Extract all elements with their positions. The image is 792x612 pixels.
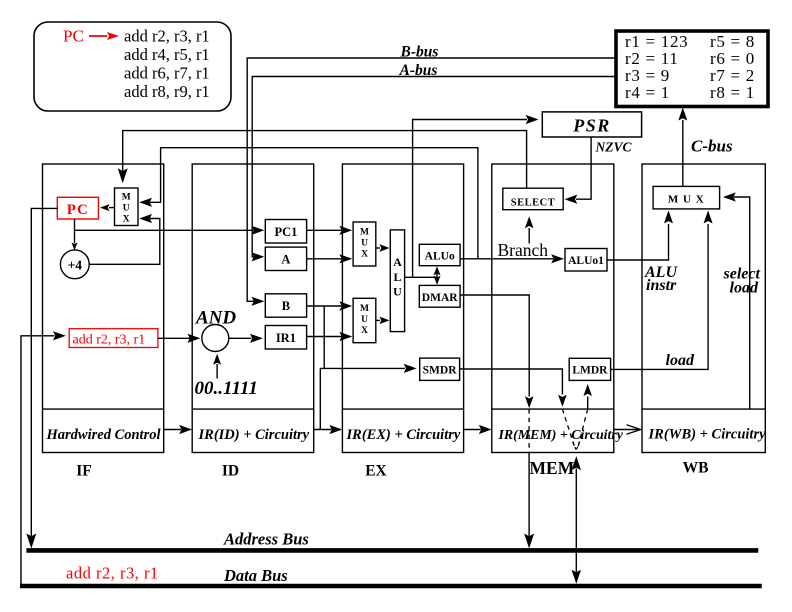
svg-text:SELECT: SELECT [511,197,555,208]
arrow IR(MEM) to IR(WB) (open head) [614,429,640,431]
wire SELECT output to IF MUX (next PC select) [123,131,527,189]
arrow mask into AND [216,364,218,379]
red arrow from PC to first instruction [89,35,107,37]
wire A-bus from register file to A register [252,77,616,257]
wire +4 output loop back to IF MUX [89,219,160,265]
svg-text:add r2, r3, r1: add r2, r3, r1 [66,564,159,583]
svg-text:U: U [361,239,368,249]
svg-text:WB: WB [683,460,709,477]
wire SMDR down into IR(MEM) [460,369,563,395]
wire ALU output [405,276,437,278]
arrow branch signal up into SELECT [528,228,530,244]
svg-text:add r2, r3, r1: add r2, r3, r1 [73,333,146,348]
svg-text:U: U [123,204,130,214]
svg-text:PC1: PC1 [274,225,297,239]
WB stage box [642,164,765,453]
svg-text:ID: ID [222,463,239,480]
svg-text:A: A [281,252,290,266]
svg-text:M U X: M U X [668,193,705,205]
svg-text:A: A [393,255,402,269]
wire junction down to IR(ID)-IR(EX) arrow [319,368,321,429]
DMAR box [419,285,460,307]
dashed arrowhead at data path join [573,442,580,451]
dashed wire LMDR path from data bus [578,409,587,446]
svg-text:M: M [360,304,369,314]
wire MEM to data bus (bidirectional) [575,469,577,573]
wire B value tap down to SMDR [320,306,405,368]
svg-text:L: L [393,270,401,284]
svg-text:M: M [122,193,131,203]
svg-text:Hardwired Control: Hardwired Control [46,427,161,443]
svg-text:X: X [361,326,368,336]
dashed wire SMDR path to data bus [562,409,574,446]
IF stage box [43,164,164,453]
svg-text:IR(MEM) + Circuitry: IR(MEM) + Circuitry [498,428,624,443]
PSR box [542,112,641,137]
wire PC output to address bus (left route) [31,208,57,536]
arrow MUX1 to ALU [376,247,380,249]
program listing box [34,22,231,111]
svg-text:MEM: MEM [530,458,575,478]
SELECT box [503,188,563,210]
svg-text:DMAR: DMAR [422,292,458,304]
svg-text:PC: PC [67,202,89,218]
PC register box (red) [57,197,98,219]
svg-text:00..1111: 00..1111 [195,378,258,399]
IF MUX box [115,188,139,226]
EX stage box [342,164,463,453]
ALUo output latch box [419,244,460,265]
svg-text:PSR: PSR [572,116,611,136]
svg-text:ALUo1: ALUo1 [568,255,604,267]
wire ALUo1 to WB MUX [607,224,669,260]
svg-text:add r2, r3, r1: add r2, r3, r1 [124,27,210,46]
wire select load control into WB MUX [734,197,750,409]
wire B-bus from register file to B register [247,58,616,301]
arrow IR(ID) to IR(EX) [314,429,332,431]
double arrow ALU result to ALUo and DMAR [436,270,438,281]
arrow MUX2 to ALU [376,319,380,321]
arrow IR(EX) to IR(MEM) [464,429,481,431]
svg-text:Data Bus: Data Bus [223,566,288,585]
svg-text:U: U [393,285,402,299]
EX MUX1 box [353,222,376,266]
wire PC to +4 adder [74,219,76,243]
svg-text:B: B [282,299,290,313]
+4 incrementer circle [60,250,89,279]
svg-text:load: load [730,280,759,297]
svg-text:add r6, r7, r1: add r6, r7, r1 [124,64,210,83]
ALUo1 box [565,249,607,272]
svg-text:IR1: IR1 [276,331,296,345]
wire MEM to address bus [528,453,530,537]
wire ALUo to ALUo1 [460,258,553,260]
AND gate circle [202,325,229,352]
LMDR box [569,358,610,380]
dashed wire through IR(MEM) compartment to address bus [528,409,530,452]
register file box [616,31,768,107]
svg-text:load: load [666,352,695,369]
A register box [265,247,306,270]
svg-text:IF: IF [76,463,92,480]
arrow instruction to AND [158,337,190,339]
wire NZVC flags from PSR to SELECT [576,137,591,199]
svg-text:EX: EX [365,463,387,480]
arrow from IR(MEM) up into LMDR [587,397,589,410]
svg-text:ALUo: ALUo [425,250,455,262]
svg-text:X: X [123,215,130,225]
wire PC to PC1 pipeline register [75,229,254,231]
Address Bus line [26,548,758,553]
PC1 register box [265,220,306,244]
svg-text:X: X [361,250,368,260]
svg-text:PC: PC [63,27,84,46]
svg-text:instr: instr [646,277,677,294]
svg-text:+4: +4 [68,258,83,273]
wire PC1 to EX MUX1 [307,229,342,231]
svg-text:r4 = 1: r4 = 1 [625,83,670,102]
IR1 register box [265,326,306,350]
svg-text:IR(ID) + Circuitry: IR(ID) + Circuitry [198,427,310,443]
arrow AND to IR1 [229,337,252,339]
svg-text:r8 = 1: r8 = 1 [710,83,755,102]
wire A to EX MUX1 [307,258,342,260]
svg-text:IR(WB) + Circuitry: IR(WB) + Circuitry [648,427,767,443]
svg-text:U: U [361,315,368,325]
svg-text:Address Bus: Address Bus [223,530,309,549]
wire ALUo branch target feedback to IF MUX [150,148,478,259]
MEM stage box [492,164,614,453]
wire ALU output to PSR [413,120,527,278]
EX MUX2 box [353,298,376,342]
WB MUX box [653,186,720,209]
svg-text:Branch: Branch [498,240,549,260]
svg-text:C-bus: C-bus [691,137,733,156]
Data Bus line [20,584,762,589]
svg-text:SMDR: SMDR [423,365,458,377]
B register box [265,294,306,317]
wire IR1 to EX MUX2 [307,336,342,338]
arrow Hardwired Control to IR(ID) [164,429,181,431]
wire LMDR to WB MUX [611,224,709,369]
svg-text:M: M [360,228,369,238]
wire C-bus from WB MUX up to register file [682,120,684,186]
wire DMAR down into IR(MEM) [460,295,529,397]
svg-text:LMDR: LMDR [572,365,608,377]
arrow IF MUX to PC [109,207,115,209]
svg-text:NZVC: NZVC [595,140,633,155]
fetched instruction box (red) [69,329,158,348]
svg-text:add r8, r9, r1: add r8, r9, r1 [124,82,210,101]
SMDR box [420,358,460,380]
ID stage box [192,164,314,453]
svg-text:add r4, r5, r1: add r4, r5, r1 [124,45,210,64]
svg-text:AND: AND [195,308,236,329]
wire data bus to fetched instruction box [21,336,55,586]
wire B to EX MUX2 [307,305,342,307]
ALU box [390,230,404,332]
svg-text:IR(EX) + Circuitry: IR(EX) + Circuitry [346,427,461,443]
